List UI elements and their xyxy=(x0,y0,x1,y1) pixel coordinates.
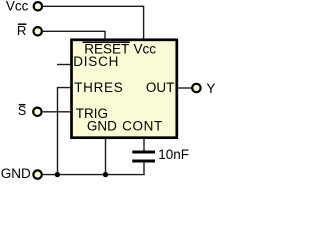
wire Vcc terminal to Vcc pin xyxy=(43,6,144,39)
junction ground rail / GND pin xyxy=(103,172,108,177)
svg-text:DISCH: DISCH xyxy=(73,54,119,69)
junction ground rail / THRES wire xyxy=(55,172,60,177)
wire GND pin down to ground rail xyxy=(105,139,107,175)
svg-text:GND: GND xyxy=(1,166,31,181)
svg-text:Y: Y xyxy=(206,81,215,96)
svg-text:OUT: OUT xyxy=(146,80,175,95)
IC U1 555 timer body xyxy=(72,40,177,138)
terminal R-bar xyxy=(34,27,42,35)
terminal Vcc xyxy=(34,2,42,10)
wire OUT pin to Y terminal xyxy=(177,87,192,89)
svg-text:R: R xyxy=(17,23,27,38)
terminal GND xyxy=(33,170,41,178)
wire capacitor to ground rail xyxy=(143,162,145,175)
svg-text:Vcc: Vcc xyxy=(134,42,157,57)
capacitor C1 plates xyxy=(132,151,155,154)
svg-text:THRES: THRES xyxy=(74,80,123,95)
wire ground rail xyxy=(43,174,145,176)
terminal S-bar xyxy=(33,108,41,116)
wire CONT pin to capacitor xyxy=(143,139,145,151)
wire R-bar terminal to RESET pin xyxy=(43,31,105,39)
svg-text:Vcc: Vcc xyxy=(6,0,29,13)
svg-text:S: S xyxy=(18,104,26,118)
wire S-bar terminal to TRIG pin xyxy=(43,111,71,113)
svg-text:CONT: CONT xyxy=(122,119,163,134)
svg-text:10nF: 10nF xyxy=(158,147,189,162)
terminal Y xyxy=(192,84,200,92)
wire DISCH pin stub xyxy=(57,64,71,66)
svg-text:GND: GND xyxy=(87,119,117,134)
wire THRES pin to ground rail xyxy=(58,88,72,175)
